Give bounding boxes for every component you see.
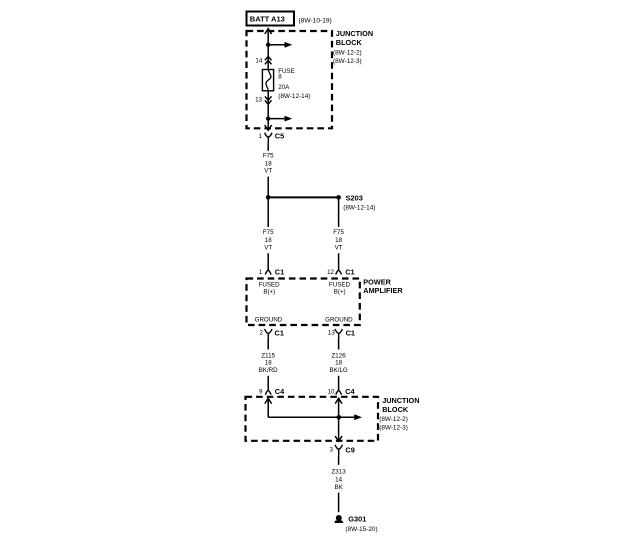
junction node dot (block 2) (337, 415, 342, 420)
svg-text:AMPLIFIER: AMPLIFIER (363, 286, 403, 295)
wire F75 right lower (338, 197, 340, 227)
connector C4 pin 10 (fork down) (336, 390, 342, 394)
junction node dot (bottom of block 1) (266, 116, 270, 120)
junction block 2 dashed outline (246, 397, 379, 441)
svg-text:C1: C1 (345, 268, 354, 277)
wire label F75 18 VT (left lower) (263, 229, 274, 251)
svg-text:(8W-15-20): (8W-15-20) (345, 526, 377, 533)
pin function label FUSED B(+) right (329, 281, 351, 295)
svg-text:VT: VT (335, 245, 343, 252)
svg-text:BK: BK (334, 484, 343, 491)
svg-text:13: 13 (255, 96, 262, 103)
svg-text:C5: C5 (275, 131, 284, 140)
wire node to fuse through chevrons (267, 45, 269, 70)
svg-text:FUSED: FUSED (259, 281, 281, 288)
svg-text:BK/RD: BK/RD (259, 367, 278, 374)
svg-text:2: 2 (260, 330, 264, 337)
svg-text:C1: C1 (275, 268, 284, 277)
svg-text:JUNCTION: JUNCTION (382, 396, 419, 405)
svg-text:FUSED: FUSED (329, 281, 351, 288)
battery feed box BATT A13 (247, 12, 295, 26)
svg-text:(8W-12-14): (8W-12-14) (343, 204, 375, 211)
wire label Z126 18 BK/LG (329, 353, 347, 375)
connector C5 (fork up) (265, 133, 272, 144)
svg-text:10: 10 (328, 388, 335, 395)
wire fuse to lower node (267, 91, 269, 119)
svg-text:12: 12 (327, 269, 334, 276)
svg-text:14: 14 (255, 57, 262, 64)
ground label G301 (345, 515, 377, 533)
wire F75 left lower (267, 197, 269, 227)
svg-text:B(+): B(+) (334, 289, 346, 296)
svg-text:G301: G301 (348, 515, 366, 524)
svg-text:(8W-12-2): (8W-12-2) (333, 50, 362, 57)
svg-text:F75: F75 (333, 229, 344, 236)
junction node dot (top) (266, 43, 270, 47)
branch arrow right (top) (268, 42, 292, 48)
svg-text:C1: C1 (346, 328, 355, 337)
svg-text:13: 13 (328, 330, 335, 337)
wire exit with down arrow (265, 119, 272, 131)
svg-text:BLOCK: BLOCK (336, 38, 363, 47)
svg-text:20A: 20A (278, 84, 290, 91)
junction block 2 label (379, 396, 419, 432)
svg-text:14: 14 (335, 477, 342, 484)
svg-text:1: 1 (259, 133, 263, 140)
wire label Z115 18 BK/RD (259, 353, 278, 375)
connector chevrons pin 13 (pointing down) (265, 96, 272, 104)
wire F75 18 VT (upper) (267, 144, 269, 151)
svg-text:18: 18 (335, 237, 342, 244)
svg-text:(8W-10-19): (8W-10-19) (299, 17, 332, 24)
svg-text:1: 1 (259, 269, 263, 276)
svg-text:F75: F75 (263, 229, 274, 236)
svg-text:VT: VT (264, 245, 272, 252)
svg-text:Z313: Z313 (332, 469, 347, 476)
svg-text:S203: S203 (346, 193, 363, 202)
wire from BATT A13 into junction block with up arrow (265, 29, 272, 45)
svg-text:BATT A13: BATT A13 (250, 15, 285, 24)
wire Z115 (267, 339, 269, 350)
power amplifier label (363, 277, 403, 295)
branch arrowhead right (354, 414, 362, 420)
svg-text:GROUND: GROUND (325, 317, 353, 324)
svg-text:B(+): B(+) (263, 289, 275, 296)
ground G301 symbol (334, 515, 343, 523)
branch arrow right (bottom of block 1) (268, 116, 292, 122)
svg-text:18: 18 (265, 360, 272, 367)
connector C1 pin 13 (fork up) (335, 329, 342, 339)
junction block 1 label (333, 29, 373, 65)
svg-text:BLOCK: BLOCK (382, 405, 409, 414)
svg-text:C4: C4 (275, 387, 285, 396)
svg-text:18: 18 (265, 237, 272, 244)
svg-text:(8W-12-14): (8W-12-14) (278, 93, 310, 100)
power amplifier dashed box (247, 279, 360, 326)
junction block 1 dashed outline (247, 31, 333, 128)
connector C4 pin 9 (fork down) (265, 390, 271, 394)
wire label F75 18 VT (upper) (263, 153, 274, 175)
wire to splice S203 (268, 196, 338, 198)
svg-text:8: 8 (278, 74, 282, 81)
internal wire left with up arrow (265, 398, 355, 417)
svg-text:Z126: Z126 (332, 353, 347, 360)
svg-text:BK/LG: BK/LG (329, 367, 347, 374)
fuse 8 (20A) element (262, 70, 273, 91)
connector C1 pin 12 (fork down) (336, 270, 342, 274)
svg-text:18: 18 (335, 360, 342, 367)
svg-text:C9: C9 (345, 445, 354, 454)
svg-text:VT: VT (264, 168, 272, 175)
wire Z313 (338, 456, 340, 465)
wire label F75 18 VT (right lower) (333, 229, 344, 251)
svg-text:(8W-12-3): (8W-12-3) (379, 425, 408, 432)
splice label S203 (343, 193, 375, 211)
internal wire right with up and down arrows (335, 398, 342, 441)
fuse labels (278, 68, 310, 100)
svg-text:C1: C1 (275, 328, 284, 337)
wire label Z313 14 BK (332, 469, 347, 492)
svg-text:18: 18 (265, 160, 272, 167)
svg-text:F75: F75 (263, 153, 274, 160)
svg-text:3: 3 (330, 447, 334, 454)
connector C9 (fork up) (335, 445, 342, 456)
svg-text:GROUND: GROUND (255, 317, 283, 324)
splice node dot left (266, 195, 271, 200)
svg-text:Z115: Z115 (261, 353, 275, 360)
svg-text:(8W-12-2): (8W-12-2) (379, 416, 408, 423)
pin function label FUSED B(+) left (259, 281, 281, 295)
connector C1 pin 2 (fork up) (265, 329, 272, 339)
svg-text:C4: C4 (345, 387, 355, 396)
connector chevrons pin 14 (pointing up) (265, 56, 272, 64)
connector C1 pin 1 (fork down) (265, 270, 271, 274)
svg-text:9: 9 (259, 388, 263, 395)
splice S203 dot (336, 195, 341, 200)
svg-text:JUNCTION: JUNCTION (336, 29, 373, 38)
svg-text:(8W-12-3): (8W-12-3) (333, 58, 362, 65)
wire Z126 (338, 339, 340, 350)
